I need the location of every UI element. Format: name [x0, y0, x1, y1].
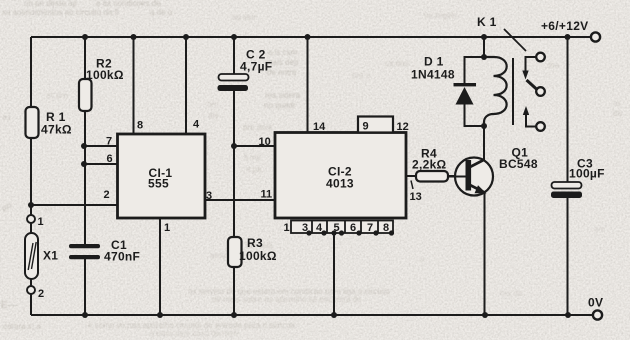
- svg-text:as: as: [2, 113, 10, 122]
- resistor R4: [416, 171, 448, 182]
- svg-text:da: da: [613, 109, 622, 118]
- relay K1 contact middle + blade: [536, 87, 545, 96]
- capacitor C2 plates: [219, 74, 249, 81]
- junction 555 pin6: [81, 161, 87, 167]
- 4013 pin13 leader tick: [411, 181, 413, 190]
- junction 4013 bus bottom rail: [331, 312, 337, 318]
- wire 4013 ground bus drop: [333, 233, 335, 315]
- svg-text:se acendimentos ao circuito da: se acendimentos ao circuito da fl: [2, 8, 119, 17]
- svg-text:res sidera: res sidera: [265, 91, 301, 100]
- transistor Q1 emitter arrow: [475, 185, 487, 193]
- svg-text:14: 14: [313, 121, 326, 133]
- relay K1 armature bar: [512, 58, 514, 125]
- junction 555 pin1 bottom rail: [157, 312, 163, 318]
- 4013 pin 9 box: [358, 117, 393, 133]
- junction relay top rail: [481, 34, 487, 40]
- svg-text:no quadr: no quadr: [264, 101, 296, 110]
- wire 555 pin 8 lead: [133, 37, 135, 134]
- wire C3 vertical branch: [567, 37, 569, 315]
- svg-text:8: 8: [137, 120, 143, 132]
- junction 4013 pin6 bus: [356, 230, 361, 235]
- svg-text:e pa: e pa: [246, 165, 262, 174]
- junction 4013 pin5 bus: [331, 230, 336, 235]
- svg-text:e as condicoes de: e as condicoes de: [96, 0, 161, 8]
- wire top supply rail: [31, 36, 591, 38]
- junction R3 bottom rail: [231, 312, 237, 318]
- sensor X1 body: [25, 233, 38, 279]
- svg-text:100kΩ: 100kΩ: [86, 68, 124, 82]
- wire emitter to 0V: [484, 192, 486, 315]
- wire relay to collector: [483, 126, 485, 160]
- 4013 bottom pin box row: [291, 221, 393, 234]
- sensor X1 terminal 2: [27, 286, 35, 294]
- svg-text:pre dest: pre dest: [243, 123, 273, 132]
- sensor X1 terminal 1: [27, 215, 35, 223]
- wire R2/C1 vertical branch: [84, 37, 86, 315]
- wire 555 pin 7 lead: [84, 145, 118, 147]
- junction relay coil top / D1: [481, 54, 487, 60]
- svg-text:a: a: [420, 255, 425, 264]
- svg-text:1: 1: [38, 216, 44, 228]
- junction 4013 pin4 bus: [321, 230, 326, 235]
- relay K1 contact bottom: [536, 122, 545, 131]
- svg-text:K 1: K 1: [477, 15, 497, 29]
- svg-text:12: 12: [397, 121, 409, 133]
- capacitor C1 plates: [69, 244, 100, 259]
- svg-text:li me: li me: [244, 153, 261, 162]
- svg-text:13: 13: [410, 191, 422, 203]
- svg-text:gP: gP: [2, 203, 12, 212]
- svg-text:1: 1: [284, 222, 290, 234]
- svg-text:1: 1: [164, 222, 170, 234]
- svg-text:47kΩ: 47kΩ: [41, 123, 72, 137]
- resistor R3: [228, 237, 242, 267]
- svg-text:se: se: [44, 205, 53, 214]
- junction 555 pin7: [81, 143, 87, 149]
- svg-text:10: 10: [259, 136, 271, 148]
- svg-text:0V: 0V: [588, 296, 603, 310]
- relay K1 coil: [484, 57, 507, 126]
- svg-text:un pri deste ap: un pri deste ap: [24, 0, 77, 8]
- junction emitter bottom rail: [482, 312, 488, 318]
- svg-text:pre o: pre o: [352, 71, 371, 80]
- junction C3 bottom rail: [565, 312, 571, 318]
- svg-text:ale: ale: [208, 111, 219, 120]
- svg-text:res de: res de: [500, 289, 523, 298]
- relay K1 pointer line: [504, 29, 526, 51]
- svg-text:11: 11: [261, 189, 273, 201]
- wire 555 pin 1 lead: [159, 218, 161, 315]
- svg-text:6: 6: [107, 153, 113, 165]
- svg-text:a is cxm: a is cxm: [268, 48, 298, 57]
- svg-text:100kΩ: 100kΩ: [239, 249, 277, 263]
- junction 4013 pin10 / R3: [231, 143, 237, 149]
- svg-text:1N4148: 1N4148: [411, 68, 455, 82]
- capacitor C3 plates: [552, 182, 582, 189]
- wire 555 pin 2 lead: [31, 204, 118, 206]
- junction 555 pin8 top rail: [131, 34, 137, 40]
- wire 4013 pin 10 lead: [234, 145, 275, 147]
- junction C1 bottom rail: [82, 312, 88, 318]
- svg-text:lo: lo: [614, 99, 621, 108]
- junction R2 top rail: [82, 34, 88, 40]
- wire relay supply drop: [483, 37, 485, 57]
- svg-text:8: 8: [383, 222, 389, 234]
- junction C2 top rail: [231, 34, 237, 40]
- wire C2/R3 vertical branch: [233, 37, 235, 315]
- svg-text:carara s; a: carara s; a: [3, 322, 41, 331]
- transistor Q1 collector stroke: [469, 160, 485, 168]
- transistor Q1 base bar: [466, 160, 472, 191]
- svg-text:470nF: 470nF: [104, 250, 140, 264]
- junction 4013 pin8 bus: [389, 230, 394, 235]
- junction 4013 bus: [339, 230, 344, 235]
- svg-text:em: em: [594, 225, 605, 234]
- svg-text:ne regele: ne regele: [424, 11, 458, 20]
- transistor Q1 emitter stroke: [469, 185, 485, 193]
- svg-text:a para este caso de mon: a para este caso de mon: [150, 329, 238, 338]
- junction 4013 pin14 top rail: [305, 34, 311, 40]
- svg-text:7: 7: [367, 222, 373, 234]
- svg-text:4: 4: [193, 119, 200, 131]
- wire bottom 0V rail: [31, 314, 593, 316]
- junction 555 pin4 top rail: [183, 34, 189, 40]
- svg-text:R3: R3: [247, 236, 263, 250]
- svg-text:100µF: 100µF: [569, 167, 605, 181]
- wire 4013 pin 14 lead: [307, 37, 309, 133]
- svg-text:4013: 4013: [326, 177, 354, 191]
- svg-text:4: 4: [316, 222, 323, 234]
- junction 4013 pin3 bus: [306, 230, 311, 235]
- svg-text:ca das: ca das: [385, 59, 409, 68]
- svg-text:7: 7: [106, 136, 112, 148]
- wire R4 leads: [406, 175, 456, 177]
- svg-text:6: 6: [350, 222, 356, 234]
- svg-text:9: 9: [363, 121, 369, 133]
- resistor R2: [79, 79, 92, 111]
- svg-text:a de o: a de o: [150, 8, 173, 17]
- svg-text:orn: orn: [207, 100, 219, 109]
- junction X1 / 555 pin2: [28, 202, 34, 208]
- op IC U1 CI-1 555 box: [118, 134, 206, 218]
- terminal 0V: [593, 310, 602, 319]
- wire left vertical branch (R1/X1): [30, 37, 32, 315]
- svg-text:D 1: D 1: [424, 55, 444, 69]
- relay K1 contact top: [536, 53, 545, 62]
- svg-text:5: 5: [333, 222, 339, 234]
- svg-text:4,7µF: 4,7µF: [240, 60, 272, 74]
- svg-text:555: 555: [148, 177, 169, 191]
- junction 4013 pin7 bus: [373, 230, 378, 235]
- svg-text:ac dm: ac dm: [46, 91, 68, 100]
- transistor Q1 body: [455, 158, 493, 196]
- svg-text:2: 2: [104, 189, 110, 201]
- svg-text:2: 2: [38, 288, 44, 300]
- svg-text:as estr: as estr: [232, 13, 256, 22]
- diode D1 branch: [465, 57, 485, 126]
- svg-text:+6/+12V: +6/+12V: [541, 19, 588, 33]
- wire 555 pin3 to 4013 pin11: [205, 199, 275, 201]
- terminal +6/+12V: [591, 32, 600, 41]
- transistor Q1 base lead: [448, 176, 466, 178]
- svg-text:E—: E—: [1, 300, 18, 311]
- svg-text:3: 3: [302, 222, 308, 234]
- junction relay coil bottom / D1: [481, 123, 487, 129]
- IC U2 CI-2 4013 box: [275, 133, 406, 219]
- junction C3 top rail: [565, 34, 571, 40]
- svg-text:the: the: [548, 61, 560, 70]
- wire 555 pin 4 lead: [185, 37, 187, 134]
- svg-text:2,2kΩ: 2,2kΩ: [412, 158, 447, 172]
- svg-text:3: 3: [206, 190, 212, 202]
- wire 555 pin 6 lead: [84, 163, 118, 165]
- resistor R1: [26, 107, 39, 138]
- svg-text:BC548: BC548: [499, 157, 538, 171]
- svg-text:X1: X1: [43, 249, 58, 263]
